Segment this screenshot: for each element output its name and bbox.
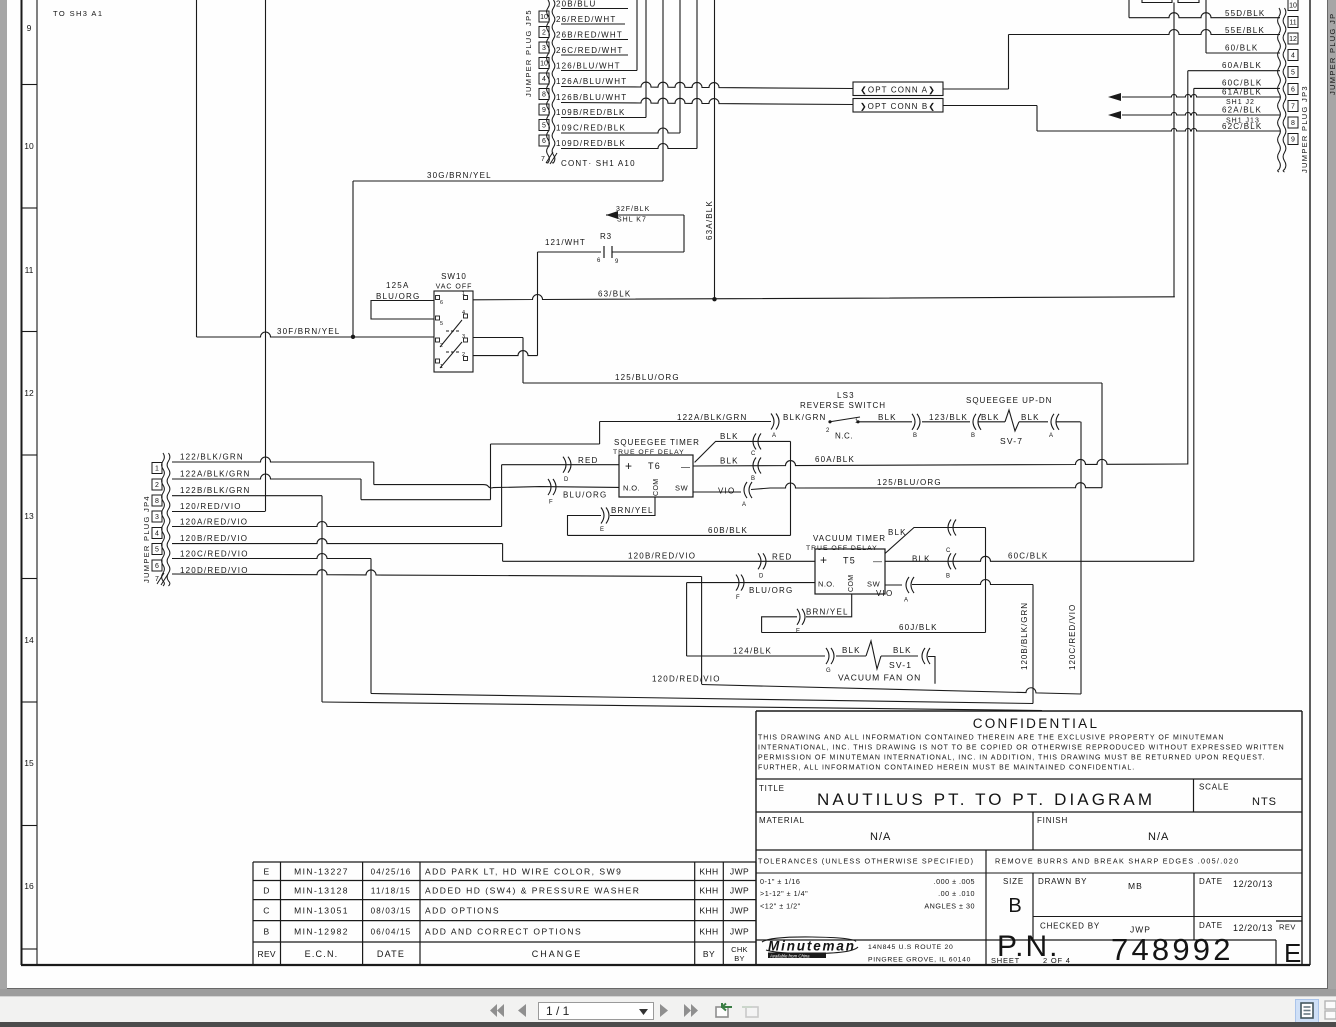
connector OPT CONN A bbox=[853, 82, 943, 96]
svg-text:.00 ± .010: .00 ± .010 bbox=[938, 889, 975, 898]
JP5 pin 6 bbox=[539, 135, 549, 146]
JP4 pin 4 bbox=[152, 528, 162, 539]
svg-text:KHH: KHH bbox=[699, 906, 718, 916]
wire 60C/BLK right bbox=[1194, 87, 1280, 89]
wire T5 NO bracket bbox=[686, 583, 688, 656]
svg-text:BLK: BLK bbox=[888, 528, 907, 537]
svg-text:ANGLES ± 30: ANGLES ± 30 bbox=[924, 902, 975, 911]
JP5 pin 2 bbox=[539, 27, 549, 38]
wire 120C/RED/VIO bbox=[172, 554, 371, 559]
svg-text:NTS: NTS bbox=[1252, 796, 1277, 808]
ruler tick 1 bbox=[21, 207, 37, 209]
JP4 pin 1 bbox=[152, 463, 162, 474]
wire 122B/BLK/GRN bbox=[172, 495, 322, 497]
wire 26/RED/WHT bbox=[561, 23, 625, 25]
jumper plug JP3 boundary squiggle bbox=[1278, 8, 1281, 172]
wire 120B to T5 bbox=[503, 560, 815, 562]
wire T5 SW out bbox=[885, 584, 902, 586]
svg-text:D: D bbox=[263, 886, 270, 896]
wire 125/BLU/ORG drop to T6 row bbox=[1101, 383, 1103, 488]
wire 60B/BLK bbox=[568, 534, 791, 536]
svg-text:VACUUM FAN ON: VACUUM FAN ON bbox=[838, 673, 921, 683]
svg-text:12/20/13: 12/20/13 bbox=[1233, 923, 1273, 933]
ruler tick 2 bbox=[21, 331, 37, 333]
ruler tick 7 bbox=[21, 948, 37, 950]
drawing frame right border bbox=[1309, 0, 1311, 965]
wire 62C/BLK bbox=[1037, 128, 1280, 131]
svg-text:BY: BY bbox=[703, 949, 715, 959]
first page button bbox=[489, 1004, 505, 1017]
wire 30F/BRN/YEL bbox=[197, 332, 435, 337]
vacuum fan box bbox=[928, 657, 935, 684]
wire 125/BLU/ORG drop bbox=[522, 338, 524, 384]
contact T5 E bbox=[797, 609, 800, 625]
wire 122/BLK/GRN bbox=[172, 457, 374, 462]
wire 122A riser bbox=[490, 444, 492, 500]
svg-text:MIN-13051: MIN-13051 bbox=[294, 906, 349, 916]
wire 125/BLU/ORG upper bbox=[523, 382, 1102, 384]
wire 126/BLU/WHT bbox=[561, 70, 637, 72]
last page button bbox=[683, 1004, 699, 1017]
svg-text:REMOVE BURRS AND BREAK SHARP E: REMOVE BURRS AND BREAK SHARP EDGES .005/… bbox=[995, 857, 1239, 866]
svg-text:B: B bbox=[946, 574, 950, 580]
svg-text:N.O.: N.O. bbox=[818, 580, 835, 589]
svg-text:A: A bbox=[904, 598, 908, 604]
page number box bbox=[538, 1002, 654, 1020]
JP3 pin 12 bbox=[1288, 33, 1298, 44]
wire 60/BLK riser bbox=[1205, 0, 1207, 53]
wire 122A/BLK/GRN bbox=[172, 474, 361, 479]
svg-text:T5: T5 bbox=[843, 556, 856, 566]
wire 30G/BRN/YEL bbox=[353, 180, 663, 182]
contact T6 D bbox=[563, 457, 566, 473]
svg-text:VACUUM TIMER: VACUUM TIMER bbox=[813, 534, 886, 543]
contact T6 E bbox=[601, 508, 604, 524]
svg-text:B: B bbox=[263, 927, 269, 937]
contact SV7 B bbox=[973, 414, 976, 430]
wire 120D/RED/VIO bbox=[172, 570, 702, 577]
wire 126/BLU/WHT riser bbox=[636, 0, 638, 71]
wire 60J riser bbox=[985, 528, 987, 633]
svg-text:N/A: N/A bbox=[870, 831, 891, 843]
contact T6 F bbox=[548, 479, 551, 495]
svg-text:SV-1: SV-1 bbox=[889, 660, 912, 670]
wire 120C drop bbox=[370, 559, 372, 694]
JP3 pin 5 bbox=[1288, 67, 1298, 78]
svg-text:BLU/ORG: BLU/ORG bbox=[749, 586, 793, 595]
contact T6 B bbox=[753, 458, 756, 474]
wire 63A/BLK vertical bbox=[714, 0, 716, 299]
JP4 pin 3 bbox=[152, 511, 162, 522]
svg-text:SIZE: SIZE bbox=[1003, 877, 1024, 886]
svg-text:MIN-12982: MIN-12982 bbox=[294, 927, 349, 937]
svg-text:KHH: KHH bbox=[699, 886, 718, 896]
single page view button (active) bbox=[1295, 999, 1319, 1023]
wire OPT CONN B drop bbox=[1036, 106, 1038, 132]
wire 30F riser to SH3 bbox=[196, 0, 198, 337]
wire 63/BLK bbox=[473, 295, 1175, 300]
svg-text:INTERNATIONAL, INC. THIS DRAWI: INTERNATIONAL, INC. THIS DRAWING IS NOT … bbox=[758, 745, 1285, 752]
contact T5 C bbox=[948, 520, 951, 536]
svg-text:B: B bbox=[1008, 895, 1021, 917]
svg-text:REV: REV bbox=[258, 949, 276, 959]
contact T6 A bbox=[744, 482, 747, 498]
svg-text:COM: COM bbox=[848, 574, 855, 592]
svg-text:MB: MB bbox=[1128, 881, 1143, 891]
JP4 pin 8 bbox=[152, 495, 162, 506]
wire 120/RED/VIO riser bbox=[265, 0, 267, 511]
svg-text:REV: REV bbox=[1279, 923, 1296, 932]
svg-text:TOLERANCES (UNLESS OTHERWISE S: TOLERANCES (UNLESS OTHERWISE SPECIFIED) bbox=[758, 857, 974, 866]
junction 63A junction bbox=[712, 297, 716, 301]
wire 124/BLK row bbox=[687, 655, 825, 657]
wire LS3 to B bbox=[858, 421, 912, 423]
wire 109C/RED/BLK riser bbox=[679, 0, 681, 133]
wire 55D riser bbox=[1128, 0, 1130, 18]
wire 126A/BLU/WHT bbox=[561, 82, 853, 88]
wire 122 continuation to T6 N.O. bbox=[374, 485, 619, 488]
wire 61A/BLK bbox=[1122, 94, 1280, 97]
svg-text:TITLE: TITLE bbox=[759, 784, 785, 793]
contact LS3 B bbox=[912, 414, 915, 430]
wire SV1 left BLK bbox=[836, 655, 866, 657]
wire RED into T6+ bbox=[502, 464, 619, 466]
wire 120B drop bbox=[502, 544, 504, 562]
wire SV1 right BLK bbox=[881, 655, 918, 657]
svg-text:JWP: JWP bbox=[730, 927, 749, 937]
contact LS3 A bbox=[771, 414, 774, 430]
JP4 pin 5 bbox=[152, 544, 162, 555]
wire 55D/BLK bbox=[1129, 13, 1280, 18]
svg-text:CHK: CHK bbox=[731, 945, 748, 954]
svg-text:JWP: JWP bbox=[730, 886, 749, 896]
wire 122A mid bbox=[361, 499, 491, 501]
wire T5 minus out 60C bbox=[885, 556, 1194, 561]
wire 120/RED/VIO bbox=[172, 511, 266, 513]
wire OPT CONN B out bbox=[943, 105, 1037, 107]
JP3 pin 10 bbox=[1288, 0, 1298, 11]
wire 60B riser bbox=[790, 441, 792, 535]
svg-text:DRAWN BY: DRAWN BY bbox=[1038, 877, 1087, 886]
wire 120D drop bbox=[701, 577, 703, 685]
ruler tick 6 bbox=[21, 825, 37, 827]
wire OPT CONN A out bbox=[943, 88, 1009, 90]
wire R3 to 32F drop bbox=[612, 251, 684, 253]
wire 122B bus bbox=[322, 702, 1042, 711]
JP5 pin 4 bbox=[539, 73, 549, 84]
contact T5 F bbox=[736, 575, 739, 591]
svg-text:748992: 748992 bbox=[1111, 932, 1234, 967]
JP5 pin 10 bbox=[539, 58, 549, 69]
svg-text:ADD PARK LT, HD WIRE COLOR, SW: ADD PARK LT, HD WIRE COLOR, SW9 bbox=[425, 867, 622, 877]
wire T5 BLK C bbox=[885, 528, 986, 554]
svg-text:FURTHER, ALL INFORMATION CONTA: FURTHER, ALL INFORMATION CONTAINED HEREI… bbox=[758, 765, 1135, 772]
wire 120A/RED/VIO bbox=[172, 522, 502, 527]
relay boxes cut at top edge bbox=[1142, 0, 1199, 3]
wire top box drop / 63 riser bbox=[1173, 3, 1175, 298]
wire 55E/BLK bbox=[1009, 30, 1281, 35]
wire 32F drop bbox=[683, 215, 685, 252]
JP3 pin 7 bbox=[1288, 101, 1298, 112]
svg-text:DATE: DATE bbox=[1199, 877, 1223, 886]
wire 109B/RED/BLK riser bbox=[645, 0, 647, 118]
svg-text:12/20/13: 12/20/13 bbox=[1233, 879, 1273, 889]
wire 122A to LS3 bbox=[600, 421, 771, 423]
wire 122 drop bbox=[373, 462, 375, 485]
contact SV1 A bbox=[922, 648, 925, 664]
wire 122A upper bbox=[491, 443, 600, 445]
JP5 pin 10 bbox=[539, 11, 549, 22]
next view icon (disabled) bbox=[740, 1001, 762, 1019]
svg-text:ADDED HD (SW4) & PRESSURE WASH: ADDED HD (SW4) & PRESSURE WASHER bbox=[425, 886, 640, 896]
svg-text:MATERIAL: MATERIAL bbox=[759, 816, 805, 825]
wire 122A drop bbox=[360, 479, 362, 500]
svg-text:Minuteman: Minuteman bbox=[768, 939, 854, 954]
wire BLU/ORG T5 bbox=[687, 582, 815, 584]
svg-text:NAUTILUS PT. TO PT. DIAGRAM: NAUTILUS PT. TO PT. DIAGRAM bbox=[817, 790, 1155, 809]
wire 126B/BLU/WHT bbox=[561, 98, 853, 104]
svg-text:BLK: BLK bbox=[893, 646, 912, 655]
connector OPT CONN B bbox=[853, 99, 943, 113]
svg-text:CHANGE: CHANGE bbox=[532, 949, 583, 959]
svg-text:—: — bbox=[873, 556, 882, 566]
wire 20B/BLU bbox=[561, 8, 628, 10]
ruler tick 0 bbox=[21, 84, 37, 86]
JP5 pin 8 bbox=[539, 89, 549, 100]
svg-text:PINGREE GROVE, IL 60140: PINGREE GROVE, IL 60140 bbox=[868, 957, 971, 964]
wire 125A/BLU/ORG U-link SW10 bbox=[371, 301, 434, 320]
contact SV7 A bbox=[1051, 414, 1054, 430]
jumper plug JP4 boundary squiggle bbox=[162, 453, 165, 586]
svg-text:C: C bbox=[263, 906, 270, 916]
svg-text:BY: BY bbox=[734, 954, 745, 963]
wire 120A riser bbox=[501, 465, 503, 527]
svg-text:60J/BLK: 60J/BLK bbox=[899, 623, 938, 632]
wire 120B/BLK/GRN vertical bbox=[1032, 585, 1034, 704]
wire 60A drop bbox=[1187, 71, 1189, 465]
two page view button bbox=[1322, 999, 1336, 1021]
wire SV7 out bbox=[1056, 421, 1081, 423]
wire 60A/BLK right bbox=[1188, 70, 1280, 72]
svg-text:KHH: KHH bbox=[699, 927, 718, 937]
svg-text:120D/RED/VIO: 120D/RED/VIO bbox=[652, 675, 721, 684]
svg-text:120C/RED/VIO: 120C/RED/VIO bbox=[1068, 604, 1077, 670]
wire OPT CONN A riser bbox=[1008, 35, 1010, 90]
wire T5 SW to 120B/BLK/GRN bbox=[912, 580, 1033, 585]
svg-text:N/A: N/A bbox=[1148, 831, 1169, 843]
wire 109C/RED/BLK bbox=[561, 128, 680, 133]
svg-text:D: D bbox=[759, 574, 764, 580]
jumper plug JP5 boundary squiggle bbox=[547, 0, 550, 163]
svg-text:E: E bbox=[1284, 938, 1301, 968]
svg-text:>1-12" ± 1/4": >1-12" ± 1/4" bbox=[760, 889, 808, 898]
svg-text:.000 ± .005: .000 ± .005 bbox=[934, 877, 975, 886]
ruler tick 4 bbox=[21, 578, 37, 580]
wire 109D/RED/BLK bbox=[561, 144, 697, 149]
JP3 pin 6 bbox=[1288, 84, 1298, 95]
wire 32F/BLK to SHL K7 with arrow bbox=[606, 214, 616, 216]
wire 120D bus bbox=[702, 685, 1081, 695]
svg-text:KHH: KHH bbox=[699, 867, 718, 877]
wire 125/BLU/ORG lower bbox=[751, 483, 1102, 490]
wire T6 BLK C bbox=[695, 441, 791, 462]
svg-text:DATE: DATE bbox=[377, 949, 405, 959]
svg-text:E: E bbox=[263, 867, 269, 877]
svg-text:<12" ± 1/2": <12" ± 1/2" bbox=[760, 902, 801, 911]
svg-text:JWP: JWP bbox=[730, 906, 749, 916]
svg-text:MIN-13128: MIN-13128 bbox=[294, 886, 349, 896]
svg-text:SCALE: SCALE bbox=[1199, 783, 1229, 792]
wire 30G riser / CONT SH1 A10 bbox=[662, 0, 664, 181]
JP4 pin 2 bbox=[152, 479, 162, 490]
wire 120C bus bbox=[371, 694, 1033, 704]
wire 120B/RED/VIO bbox=[172, 539, 503, 544]
svg-text:06/04/15: 06/04/15 bbox=[371, 928, 412, 937]
svg-text:ADD AND CORRECT OPTIONS: ADD AND CORRECT OPTIONS bbox=[425, 927, 582, 937]
svg-text:MIN-13227: MIN-13227 bbox=[294, 867, 349, 877]
svg-text:FINISH: FINISH bbox=[1037, 816, 1068, 825]
wire 32F/BLK bbox=[612, 214, 684, 216]
svg-text:2 OF 4: 2 OF 4 bbox=[1043, 956, 1071, 965]
wire T5 COM BRN/YEL bbox=[762, 594, 852, 633]
wire 109D/RED/BLK riser bbox=[696, 0, 698, 149]
svg-text:120B/RED/VIO: 120B/RED/VIO bbox=[628, 552, 696, 561]
svg-text:BLK: BLK bbox=[842, 646, 861, 655]
wire 122A riser2 bbox=[599, 422, 601, 445]
svg-text:G: G bbox=[826, 668, 831, 674]
junction 30F junction bbox=[351, 335, 355, 339]
JP3 pin 9 bbox=[1288, 134, 1298, 145]
next page button bbox=[659, 1004, 669, 1017]
prev page button bbox=[517, 1004, 527, 1017]
wire 121 riser bbox=[537, 252, 539, 356]
svg-text:BLK: BLK bbox=[912, 555, 931, 564]
wire 26C/RED/WHT bbox=[561, 54, 628, 56]
drawing frame bottom border bbox=[21, 964, 1310, 966]
JP5 pin 5 bbox=[539, 120, 549, 131]
contact T6 C bbox=[753, 433, 756, 449]
svg-text:RED: RED bbox=[772, 553, 793, 562]
wire 60/BLK bbox=[1206, 52, 1280, 54]
wire 62A/BLK bbox=[1122, 112, 1280, 115]
revision table bbox=[253, 861, 756, 863]
wire 26B/RED/WHT bbox=[561, 39, 628, 41]
svg-text:04/25/16: 04/25/16 bbox=[371, 868, 412, 877]
wire 60J/BLK bbox=[762, 632, 986, 634]
wire SV7 right BLK bbox=[1019, 421, 1048, 423]
contact T5 A bbox=[906, 577, 909, 593]
JP3 pin 8 bbox=[1288, 117, 1298, 128]
wire T6 SW out bbox=[693, 491, 741, 493]
svg-text:E: E bbox=[796, 629, 800, 635]
ruler tick 5 bbox=[21, 701, 37, 703]
svg-text:THIS DRAWING AND ALL INFORMATI: THIS DRAWING AND ALL INFORMATION CONTAIN… bbox=[758, 735, 1224, 742]
drawing frame left border bbox=[21, 0, 23, 965]
svg-text:08/03/15: 08/03/15 bbox=[371, 907, 412, 916]
wire T6 COM BRN/YEL bbox=[610, 497, 655, 516]
svg-text:F: F bbox=[736, 595, 740, 601]
svg-text:124/BLK: 124/BLK bbox=[733, 647, 772, 656]
JP5 pin 3 bbox=[539, 42, 549, 53]
JP3 pin 11 bbox=[1288, 17, 1298, 28]
wire 109B/RED/BLK bbox=[561, 117, 646, 119]
svg-text:11/18/15: 11/18/15 bbox=[371, 887, 411, 896]
svg-text:120B/BLK/GRN: 120B/BLK/GRN bbox=[1020, 602, 1029, 670]
contact T5 D bbox=[758, 553, 761, 569]
svg-text:C: C bbox=[946, 548, 951, 554]
previous view icon bbox=[712, 1001, 734, 1019]
wire SW10 pin3 out bbox=[473, 337, 523, 339]
svg-text:PERMISSION OF MINUTEMAN INTERN: PERMISSION OF MINUTEMAN INTERNATIONAL, I… bbox=[758, 755, 1265, 762]
wire T6 minus out 60A bbox=[693, 459, 1188, 466]
JP5 pin 9 bbox=[539, 104, 549, 115]
title block outline bbox=[756, 710, 1302, 712]
ruler tick 3 bbox=[21, 454, 37, 456]
svg-text:SW: SW bbox=[867, 580, 881, 589]
svg-text:CONFIDENTIAL: CONFIDENTIAL bbox=[973, 716, 1100, 731]
svg-text:0-1" ± 1/16: 0-1" ± 1/16 bbox=[760, 877, 800, 886]
svg-text:14N845 U.S ROUTE 20: 14N845 U.S ROUTE 20 bbox=[868, 944, 953, 951]
contact T5 B bbox=[948, 553, 951, 569]
svg-text:VIO: VIO bbox=[876, 589, 893, 598]
JP4 pin 6 bbox=[152, 560, 162, 571]
svg-text:+: + bbox=[820, 553, 827, 567]
wire 122B drop bbox=[321, 496, 323, 702]
wire 30G drop to 30F bbox=[352, 181, 354, 337]
svg-text:BRN/YEL: BRN/YEL bbox=[806, 608, 849, 617]
svg-text:Available from China: Available from China bbox=[769, 953, 810, 958]
wire 121/WHT bbox=[538, 251, 602, 253]
JP3 pin 4 bbox=[1288, 50, 1298, 61]
svg-text:SHEET: SHEET bbox=[991, 956, 1020, 965]
svg-text:JWP: JWP bbox=[730, 867, 749, 877]
contact SV1 G bbox=[826, 648, 829, 664]
svg-text:ADD OPTIONS: ADD OPTIONS bbox=[425, 906, 500, 916]
Minuteman logo bbox=[762, 937, 858, 958]
svg-text:60C/BLK: 60C/BLK bbox=[1008, 552, 1048, 561]
wire 123/BLK bbox=[922, 421, 970, 423]
wire 60C drop bbox=[1193, 88, 1195, 561]
svg-text:DATE: DATE bbox=[1199, 921, 1223, 930]
LS3 N.C. contact bbox=[828, 420, 831, 423]
wire SV7 drop 120C bbox=[1080, 422, 1082, 694]
wire SV7 left BLK bbox=[978, 421, 1005, 423]
wire SW10 pin2 out bbox=[473, 351, 538, 356]
svg-text:E.C.N.: E.C.N. bbox=[305, 949, 339, 959]
